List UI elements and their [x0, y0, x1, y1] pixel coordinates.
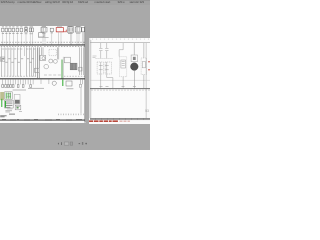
- svg-text:53: 53: [145, 109, 149, 113]
